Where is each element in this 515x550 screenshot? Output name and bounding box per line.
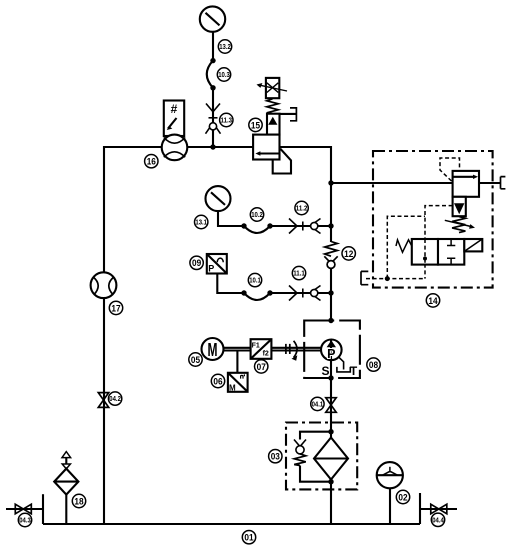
svg-text:06: 06 (213, 376, 222, 387)
svg-text:04.2: 04.2 (109, 396, 121, 403)
wire: drain valve 04.4 line (420, 508, 457, 510)
label 07 (255, 360, 268, 373)
label 04.1 (311, 397, 324, 410)
svg-text:16: 16 (147, 157, 156, 168)
label 16 (145, 155, 158, 168)
svg-text:04.4: 04.4 (432, 517, 444, 524)
svg-text:13.2: 13.2 (219, 44, 231, 51)
test coupling 11.2 (289, 219, 321, 234)
label 14 (426, 294, 439, 307)
label 11.1 (292, 266, 305, 279)
svg-text:11.1: 11.1 (293, 271, 305, 278)
manifold block enclosure 14 (373, 151, 493, 288)
wire: pressure switch 09 branch row (217, 274, 331, 294)
svg-text:F1: F1 (252, 343, 260, 350)
svg-text:09: 09 (192, 258, 201, 269)
svg-text:S: S (321, 364, 329, 378)
svg-text:10.2: 10.2 (251, 212, 263, 219)
flow meter 16 (162, 135, 188, 161)
shut-off valve 04.1 (326, 398, 336, 413)
svg-text:11.2: 11.2 (296, 206, 308, 213)
svg-text:P: P (208, 264, 214, 274)
wire: manifold 14 outlet (479, 182, 501, 184)
svg-text:04.3: 04.3 (19, 518, 31, 525)
label 13.1 (195, 215, 208, 228)
label 11.3 (220, 113, 233, 126)
wire: filter bypass bottom branch (300, 466, 331, 482)
port symbol: manifold outlet (501, 177, 506, 189)
wire: line through pump to tank line (330, 378, 332, 524)
node: dashed drain junction (385, 276, 390, 281)
wire: relief valve 15 pilot port line (280, 113, 297, 115)
wire: breather 18 stem (65, 495, 67, 524)
wire: drain valve 04.3 line (6, 508, 43, 510)
flow counter box of 16 (164, 101, 184, 137)
wire: left return line with top corner (104, 147, 253, 524)
label 04.2 (108, 392, 121, 405)
label 05 (189, 353, 202, 366)
node: junction row2 / main line (328, 290, 333, 295)
pressure switch 09 (207, 254, 227, 274)
label 10.1 (248, 273, 261, 286)
wire: branch to manifold 14 (331, 182, 453, 184)
electric motor 05 (202, 338, 224, 360)
label 11.2 (295, 201, 308, 214)
svg-text:M: M (208, 340, 218, 360)
svg-text:10.1: 10.1 (249, 278, 261, 285)
label 18 (72, 494, 85, 507)
return filter 03 (314, 438, 348, 480)
speed sensor 06 (228, 373, 248, 393)
wire: main pressure line right of valve 15 (280, 147, 331, 242)
svg-text:13.1: 13.1 (195, 220, 207, 227)
label 13.2 (218, 40, 231, 53)
label 06 (211, 374, 224, 387)
svg-text:12: 12 (344, 249, 353, 260)
test coupling 11.3 (206, 104, 221, 134)
node: junction branch to 14 (328, 180, 333, 185)
svg-text:P: P (327, 347, 335, 361)
svg-text:03: 03 (271, 452, 280, 463)
svg-text:14: 14 (428, 296, 438, 307)
svg-text:08: 08 (369, 360, 378, 371)
pump unit enclosure 08 (304, 321, 360, 379)
breather filter 18 (54, 452, 78, 495)
label 17 (109, 301, 122, 314)
pilot dashed line of cartridge (440, 158, 460, 181)
wire: level gauge 02 stem (389, 488, 391, 524)
svg-text:01: 01 (244, 533, 254, 544)
label 04.4 (431, 513, 444, 526)
shut-off valve 04.2 (98, 393, 108, 408)
wire: vertical main line below check valve 12 (330, 268, 332, 321)
dashed drain to T port (366, 278, 425, 280)
pressure gauge 13.1 (206, 186, 231, 211)
svg-text:10.3: 10.3 (218, 72, 230, 79)
cartridge poppet in 14 (453, 197, 466, 216)
node: filter outlet junction (328, 479, 333, 484)
wire: gauge 13.1 branch row (218, 211, 331, 226)
svg-text:11.3: 11.3 (221, 118, 233, 125)
shut-off valve 04.3 (15, 504, 31, 514)
svg-text:05: 05 (191, 355, 201, 366)
svg-text:02: 02 (398, 492, 407, 503)
label 08 (367, 358, 380, 371)
gearbox 07 (251, 339, 272, 359)
wire: tank bottom line 01 (43, 523, 420, 525)
port symbol: manifold T port (361, 271, 368, 284)
svg-text:f2: f2 (263, 351, 269, 358)
wire: left tank riser (42, 494, 44, 524)
label 10.2 (250, 208, 263, 221)
label 01 (242, 531, 255, 544)
label 02 (396, 490, 409, 503)
svg-text:T: T (350, 364, 358, 378)
solenoid valve in 14 (396, 239, 482, 265)
node: junction row1 / main line (328, 223, 333, 228)
dashed drain branch (387, 216, 425, 278)
dashed pilot: spring chamber to solenoid valve (425, 206, 453, 279)
label 03 (269, 450, 282, 463)
label 09 (190, 256, 203, 269)
svg-text:15: 15 (251, 120, 261, 131)
shaft coupling (286, 341, 297, 361)
pressure gauge 13.2 (200, 6, 225, 31)
wire: motor shaft double line (224, 348, 322, 351)
label 15 (249, 118, 262, 131)
hose 10.2 (241, 223, 272, 233)
svg-text:18: 18 (74, 496, 83, 507)
svg-text:#: # (171, 102, 178, 116)
label 10.3 (217, 68, 230, 81)
test coupling 11.1 (289, 286, 321, 301)
hose 10.1 (241, 290, 272, 300)
node: pump box top (328, 318, 333, 323)
node: filter inlet junction (328, 429, 333, 434)
check valve 12 (324, 242, 337, 269)
sight glass 17 (91, 272, 117, 298)
filter bypass check valve (294, 440, 306, 466)
cartridge valve in 14 (453, 171, 479, 197)
svg-text:M: M (229, 384, 236, 393)
wire: filter bypass top branch (300, 432, 331, 440)
cartridge spring in 14 (445, 217, 475, 233)
filter assembly enclosure 03 (286, 423, 357, 490)
label 12 (342, 247, 355, 260)
node: pump box bottom (328, 375, 333, 380)
label 04.3 (18, 513, 31, 526)
svg-text:04.1: 04.1 (312, 401, 324, 408)
node: junction main line / gauge branch (210, 144, 215, 149)
wire: speed sensor 06 drop (236, 351, 238, 373)
wire: right tank riser (419, 493, 421, 524)
svg-text:07: 07 (257, 362, 266, 373)
pump 08 (321, 340, 358, 379)
shut-off valve 04.4 (431, 504, 447, 514)
relief valve 15 (253, 78, 296, 174)
wire: gauge 13.2 branch (212, 32, 214, 147)
hose 10.3 (207, 58, 216, 91)
svg-text:17: 17 (111, 303, 120, 314)
level gauge 02 (377, 462, 403, 488)
